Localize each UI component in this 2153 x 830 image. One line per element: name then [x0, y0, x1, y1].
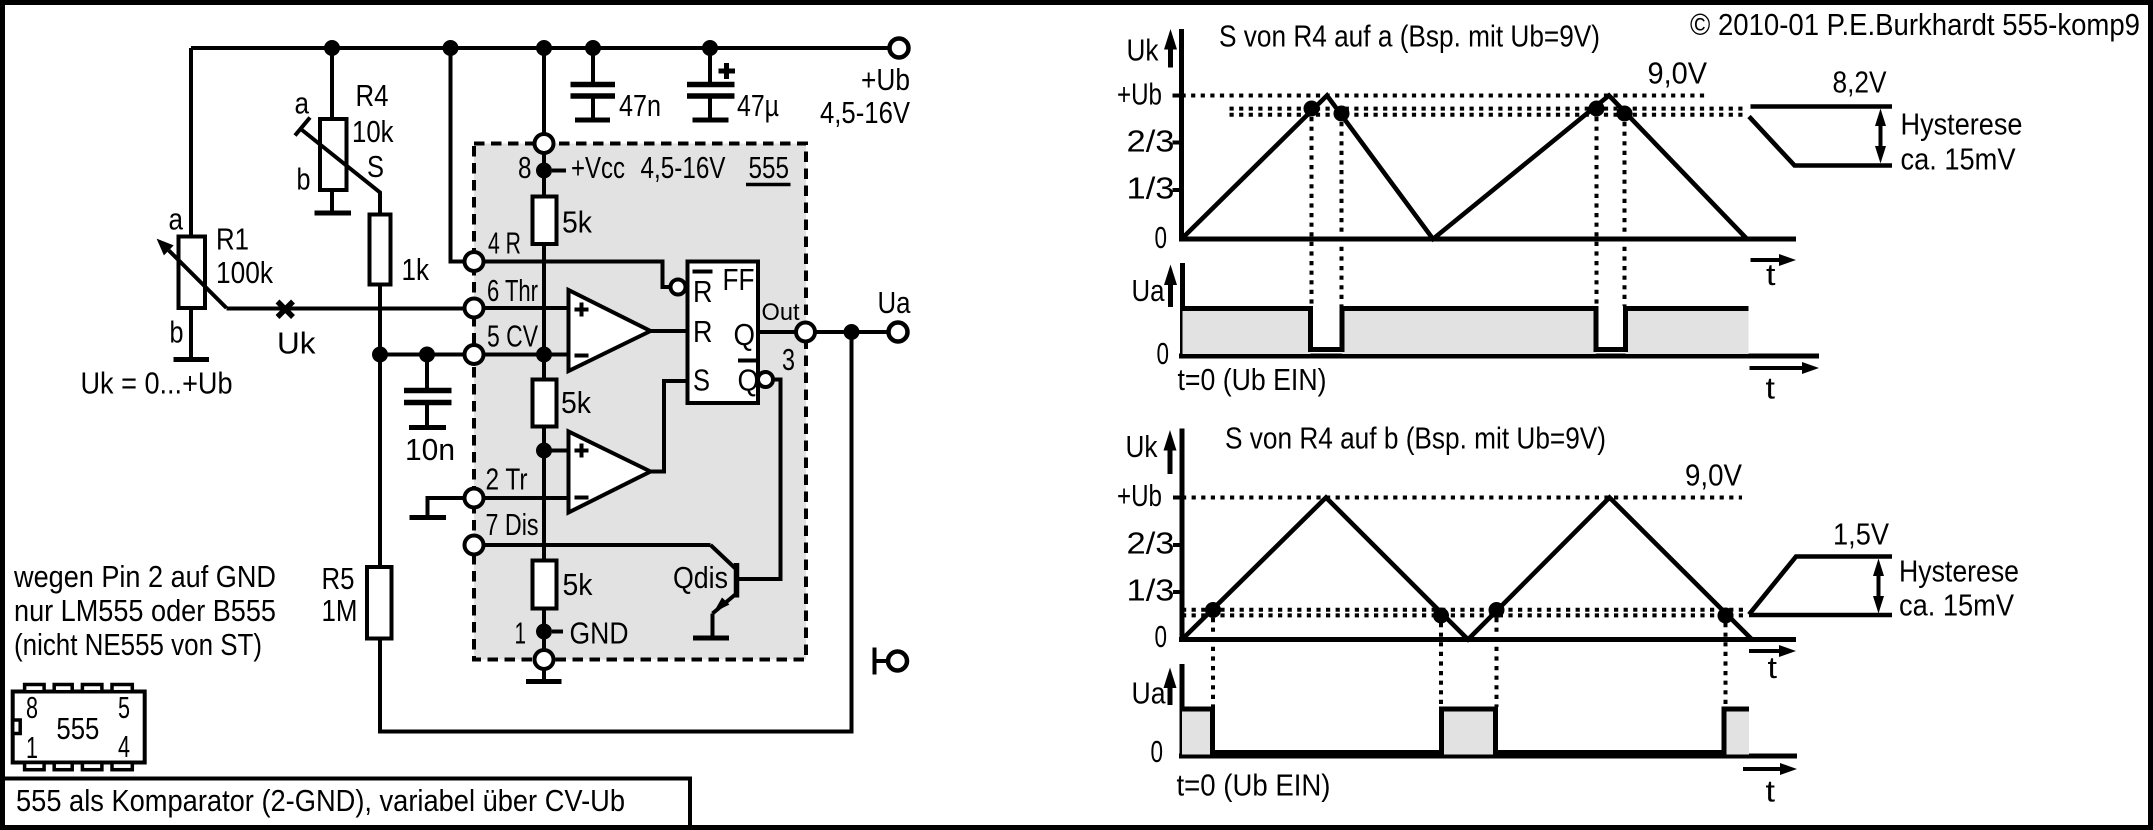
svg-text:t: t	[1766, 257, 1776, 292]
svg-text:6 Thr: 6 Thr	[487, 273, 538, 308]
svg-text:1/3: 1/3	[1127, 573, 1175, 608]
wire comp2 out to FF S	[651, 381, 688, 472]
svg-text:wegen Pin 2 auf GND: wegen Pin 2 auf GND	[13, 559, 276, 594]
svg-text:10n: 10n	[405, 432, 455, 467]
diagram B t arrow	[1749, 645, 1796, 685]
svg-text:1M: 1M	[322, 593, 358, 628]
diagram A Ua grey fill	[1183, 311, 1311, 354]
switch point dots A	[1304, 101, 1320, 117]
pin 3 circle	[796, 323, 815, 342]
pin 4 circle	[465, 252, 484, 271]
potentiometer R1 100k	[157, 202, 274, 360]
diagram A Ua t arrow	[1750, 362, 1820, 406]
diagram B Ua pulse waveform	[1182, 709, 1749, 753]
svg-text:Hysterese: Hysterese	[1901, 107, 2023, 142]
resistor 5k upper	[533, 197, 593, 245]
svg-text:1: 1	[26, 730, 38, 765]
wire 5k3 to pin1	[542, 609, 546, 651]
wire pin4 to FF reset	[484, 262, 671, 288]
svg-text:555 als Komparator (2-GND), va: 555 als Komparator (2-GND), variabel übe…	[16, 783, 625, 818]
svg-text:t=0 (Ub EIN): t=0 (Ub EIN)	[1177, 768, 1331, 803]
wire Uk (wiper to Thr)	[227, 307, 466, 311]
svg-text:5k: 5k	[563, 567, 593, 602]
diagram B triangle waveform	[1182, 498, 1752, 640]
svg-text:5 CV: 5 CV	[487, 319, 538, 354]
node bus-pin8	[536, 40, 552, 56]
svg-text:0: 0	[1157, 336, 1170, 371]
svg-text:10k: 10k	[352, 114, 394, 149]
diagram B Ua t arrow	[1743, 763, 1797, 809]
svg-text:(nicht NE555 von ST): (nicht NE555 von ST)	[14, 627, 262, 662]
svg-text:ca. 15mV: ca. 15mV	[1899, 588, 2014, 623]
svg-text:7 Dis: 7 Dis	[486, 507, 539, 542]
pin 7 circle	[465, 536, 484, 555]
flip-flop FF box	[688, 262, 760, 404]
svg-text:FF: FF	[723, 262, 755, 297]
svg-text:+Ub: +Ub	[861, 62, 910, 97]
diagram A Ua pulse waveform	[1183, 309, 1749, 350]
svg-text:1k: 1k	[402, 252, 430, 287]
svg-text:R4: R4	[356, 78, 389, 113]
svg-text:47µ: 47µ	[737, 88, 779, 123]
pin 8 circle	[535, 134, 554, 153]
svg-text:R: R	[693, 314, 713, 349]
svg-text:8: 8	[518, 150, 532, 185]
wire Qbar to Qdis base	[739, 380, 781, 580]
svg-text:0: 0	[1155, 619, 1168, 654]
svg-text:1/3: 1/3	[1127, 171, 1175, 206]
caption box	[3, 779, 691, 828]
svg-text:4 R: 4 R	[488, 226, 521, 261]
svg-text:0: 0	[1155, 220, 1168, 255]
ground pin2	[410, 515, 447, 520]
node X mark Uk	[277, 302, 316, 361]
wire 1k to CV node	[378, 285, 382, 355]
resistor 5k middle	[533, 380, 592, 427]
svg-text:2/3: 2/3	[1127, 526, 1175, 561]
IC 555 dashed box	[474, 144, 806, 660]
wire pin4 from bus	[451, 48, 465, 262]
wire divider chain lower	[542, 427, 546, 561]
svg-text:+Vcc: +Vcc	[571, 150, 625, 185]
svg-text:100k: 100k	[216, 255, 273, 290]
wire pin3 to Ua	[816, 330, 889, 334]
svg-text:t: t	[1766, 774, 1776, 809]
diagram B Uk axis	[1117, 429, 1796, 655]
svg-text:Uk: Uk	[1126, 429, 1158, 464]
node CV-10n	[419, 347, 435, 363]
node bus-pin4	[443, 40, 459, 56]
svg-text:t=0 (Ub EIN): t=0 (Ub EIN)	[1178, 362, 1327, 397]
svg-text:9,0V: 9,0V	[1685, 458, 1742, 493]
svg-text:2 Tr: 2 Tr	[486, 462, 528, 497]
diagram A Uk axis	[1117, 29, 1796, 255]
wire pin7 row	[484, 543, 711, 547]
wire R1 top	[189, 48, 193, 237]
diagram B Ua axis	[1132, 664, 1798, 769]
note text LM555	[13, 559, 276, 662]
svg-text:4: 4	[118, 729, 130, 764]
dotted verticals B	[1211, 618, 1215, 707]
svg-text:2/3: 2/3	[1127, 124, 1175, 159]
svg-text:S: S	[367, 149, 384, 184]
diagram A Ua axis	[1132, 263, 1820, 371]
diagram A triangle waveform	[1182, 96, 1748, 240]
svg-text:b: b	[170, 315, 184, 350]
svg-text:5: 5	[118, 690, 130, 725]
wire R4 top	[330, 48, 334, 119]
wire divider to comp2 plus	[544, 449, 569, 453]
svg-text:nur LM555 oder B555: nur LM555 oder B555	[14, 593, 276, 628]
svg-text:4,5-16V: 4,5-16V	[641, 150, 726, 185]
node CV-R5	[372, 347, 388, 363]
wire CV row	[380, 353, 465, 357]
node bus-C47u	[702, 40, 718, 56]
wire pin8 drop	[542, 48, 546, 135]
wire Q out to pin3	[758, 330, 796, 334]
svg-text:t: t	[1768, 650, 1778, 685]
svg-text:Q: Q	[738, 363, 760, 398]
svg-text:© 2010-01 P.E.Burkhardt 555-ko: © 2010-01 P.E.Burkhardt 555-komp9	[1690, 7, 2140, 42]
svg-text:1,5V: 1,5V	[1833, 517, 1889, 552]
resistor 1k	[370, 215, 430, 288]
wire top supply bus	[191, 46, 890, 50]
capacitor 47n	[571, 48, 662, 123]
svg-text:47n: 47n	[619, 88, 661, 123]
DIP-8 package icon 555	[13, 685, 145, 770]
dotted verticals A	[1310, 117, 1314, 306]
svg-text:Uk = 0...+Ub: Uk = 0...+Ub	[81, 366, 233, 401]
pin 5 circle	[465, 345, 484, 364]
svg-text:a: a	[295, 86, 310, 121]
node Ua	[844, 324, 860, 340]
node divider-comp2	[536, 443, 552, 459]
svg-text:R: R	[693, 274, 713, 309]
node bus-C47n	[585, 40, 601, 56]
diagram A t arrow	[1751, 254, 1797, 292]
svg-text:+Ub: +Ub	[1117, 478, 1162, 513]
wire divider chain upper	[542, 244, 546, 380]
wire comp1 out to FF R	[651, 329, 688, 333]
svg-text:0: 0	[1151, 734, 1164, 769]
terminal Ua	[878, 285, 912, 342]
transistor Qdis	[673, 545, 737, 638]
svg-text:R1: R1	[216, 222, 249, 257]
hysteresis zoom A	[1749, 65, 2023, 177]
op-amp comparator 2	[569, 432, 651, 513]
node pin1 GND	[515, 616, 629, 651]
svg-text:8,2V: 8,2V	[1833, 65, 1887, 100]
terminal output ground	[875, 648, 908, 675]
diagram B dotted +Ub level	[1182, 496, 1742, 500]
svg-text:a: a	[169, 202, 184, 237]
pin 1 circle	[535, 650, 554, 669]
svg-text:Q: Q	[734, 317, 756, 352]
svg-text:Ua: Ua	[1132, 676, 1167, 711]
node divider-CV	[536, 347, 552, 363]
svg-text:GND: GND	[570, 616, 629, 651]
svg-text:t: t	[1766, 371, 1776, 406]
switch point dots B	[1205, 602, 1221, 618]
svg-text:ca. 15mV: ca. 15mV	[1901, 142, 2016, 177]
potentiometer R4 10k with wiper S	[295, 78, 394, 215]
wire pin6 to comp1 plus	[484, 306, 569, 310]
svg-text:Out: Out	[762, 299, 800, 326]
svg-text:555: 555	[749, 150, 790, 185]
svg-text:5k: 5k	[561, 385, 591, 420]
svg-text:R5: R5	[322, 561, 355, 596]
diagram A dotted +Ub level	[1182, 94, 1708, 98]
bubble FF R inverted	[671, 280, 686, 295]
svg-text:555: 555	[56, 711, 99, 746]
svg-text:S von R4 auf b (Bsp. mit Ub=9V: S von R4 auf b (Bsp. mit Ub=9V)	[1225, 421, 1606, 456]
capacitor 47u polarized	[687, 48, 779, 123]
svg-text:Ua: Ua	[1132, 273, 1166, 308]
svg-text:S: S	[693, 363, 710, 398]
svg-text:4,5-16V: 4,5-16V	[820, 95, 910, 130]
op-amp comparator 1	[569, 290, 651, 371]
svg-text:3: 3	[782, 342, 795, 377]
svg-text:8: 8	[26, 690, 38, 725]
ground below pin1	[526, 669, 562, 682]
svg-text:Ua: Ua	[878, 285, 912, 320]
svg-text:+Ub: +Ub	[1117, 77, 1162, 112]
terminal +Ub	[820, 39, 910, 131]
node bus-R4	[324, 40, 340, 56]
svg-text:1: 1	[515, 616, 527, 651]
wire pin2 to comp2 minus	[484, 496, 569, 500]
svg-text:5k: 5k	[562, 205, 592, 240]
resistor 5k lower	[533, 561, 593, 609]
bubble FF Qbar inverted	[758, 372, 773, 387]
wire pin2 to ground	[428, 498, 465, 515]
diagram B Ua grey fill	[1182, 711, 1213, 755]
hysteresis zoom B	[1749, 517, 2019, 623]
svg-text:Hysterese: Hysterese	[1899, 554, 2019, 589]
svg-text:b: b	[297, 162, 311, 197]
svg-text:Qdis: Qdis	[673, 560, 728, 595]
wire pin5 to comp1 minus	[484, 353, 569, 357]
svg-text:S von R4 auf a (Bsp. mit Ub=9V: S von R4 auf a (Bsp. mit Ub=9V)	[1219, 19, 1600, 54]
diagram A threshold dotted lines	[1230, 107, 1748, 111]
wire pin8 to 5k1	[542, 153, 546, 197]
svg-text:Uk: Uk	[1127, 33, 1159, 68]
diagram B threshold dotted lines	[1182, 608, 1747, 612]
pin 6 circle	[465, 299, 484, 318]
svg-text:9,0V: 9,0V	[1648, 56, 1708, 91]
capacitor 10n	[404, 355, 455, 468]
pin 2 circle	[465, 489, 484, 508]
node pin8 +Vcc	[518, 150, 791, 185]
wire CV node down to R5	[378, 355, 382, 568]
svg-text:Uk: Uk	[277, 326, 316, 361]
resistor R5 1M	[322, 561, 392, 639]
wire bottom return	[380, 332, 852, 732]
